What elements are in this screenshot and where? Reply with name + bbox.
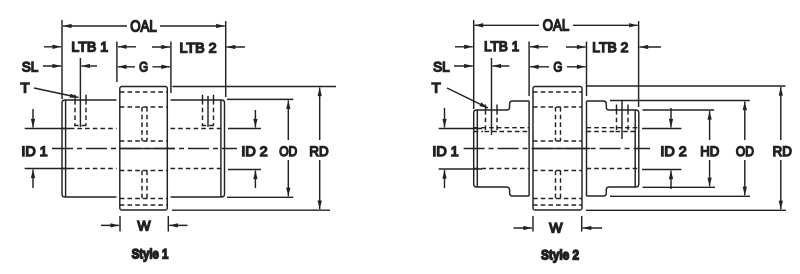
LTB 2 extension line left (style 2): [586, 42, 588, 97]
hub 2 setscrew centerline (style 2): [621, 101, 623, 140]
hub 1 setscrew ticks above OD: [74, 95, 76, 100]
RD extension lines: [172, 86, 336, 88]
RD extension lines (style 2): [586, 85, 786, 87]
svg-text:ID 2: ID 2: [660, 143, 687, 159]
flange jaw stems lower: [141, 171, 143, 199]
hub 1 left face chamfer line: [65, 100, 67, 197]
flange jaw hidden line upper top (style 2): [533, 106, 582, 108]
ID 2 extension lines: [228, 128, 261, 130]
svg-text:T: T: [21, 80, 30, 96]
flange jaw hidden line (lower slot top): [120, 170, 168, 172]
hub 2 collar left face: [586, 101, 588, 196]
svg-text:RD: RD: [773, 143, 792, 159]
OAL dimension line with arrows: [63, 25, 127, 27]
LTB 2 outside arrows (style 2): [566, 46, 586, 48]
hub 2 setscrew ticks above OD: [202, 95, 204, 100]
hub 1 setscrew hole hidden lines (style 2): [485, 110, 487, 132]
coupling axis centerline: [52, 148, 237, 150]
flange jaw hidden line lower top (style 2): [533, 170, 582, 172]
SL dimension arrows (style 2): [454, 65, 473, 67]
ID 1 arrows (style 2): [444, 108, 446, 127]
OAL extension line right: [225, 21, 227, 97]
svg-text:HD: HD: [700, 143, 719, 159]
hub 1 bore hidden lines: [62, 128, 117, 130]
svg-text:SL: SL: [433, 59, 450, 75]
svg-text:W: W: [549, 219, 563, 235]
RD arrows (style 2): [780, 87, 782, 140]
hub 1 outline (barrel and flange collar): [474, 101, 529, 196]
HD extension lines (style 2): [643, 109, 715, 111]
hub 1 setscrew centerline (style 2): [491, 58, 493, 135]
W arrows: [101, 224, 119, 226]
svg-text:OD: OD: [279, 143, 297, 159]
svg-text:ID 1: ID 1: [432, 143, 459, 159]
svg-text:RD: RD: [309, 143, 328, 159]
flange inner recess hidden line bottom: [120, 204, 168, 206]
T leader line (style 2): [447, 88, 488, 108]
hub 1 keyway hidden line (style 2): [474, 131, 483, 133]
flange seam line: [120, 148, 175, 150]
RD arrows: [319, 88, 321, 140]
hub 1 setscrew hole bottom (style 2): [485, 131, 499, 133]
SL dimension arrows: [43, 65, 61, 67]
svg-text:LTB 2: LTB 2: [180, 39, 217, 55]
hub 1 setscrew ticks (style 2): [485, 105, 487, 111]
coupling axis centerline (style 2): [464, 148, 650, 150]
hub 1 setscrew centerline: [79, 58, 81, 127]
hub 2 bore hidden lines: [171, 128, 225, 130]
OD extension lines: [227, 98, 293, 100]
svg-text:Style 1: Style 1: [132, 247, 169, 262]
hub 2 setscrew hole bottom: [202, 125, 215, 127]
W extension ticks (style 2): [532, 216, 534, 232]
flange jaw stems upper (style 2): [555, 107, 557, 141]
flange jaw hidden line (upper slot top): [120, 106, 168, 108]
flange jaw hidden line (lower slot bottom): [120, 198, 168, 200]
svg-text:G: G: [553, 59, 562, 75]
LTB 1 extension line right (style 2): [528, 42, 530, 97]
OD extension lines (style 2): [610, 100, 750, 102]
ID 1 extension lines: [25, 128, 70, 130]
G dimension arrows (style 2): [530, 66, 549, 68]
OAL extension line left (style 2): [473, 20, 475, 109]
flange jaw hidden line upper bottom (style 2): [533, 140, 582, 142]
svg-text:W: W: [137, 218, 151, 234]
OAL extension line right (style 2): [638, 21, 640, 107]
hub 2 setscrew hole bottom (style 2): [616, 131, 630, 133]
svg-text:OAL: OAL: [130, 18, 157, 35]
LTB 2 outside arrows: [152, 46, 170, 48]
hub 2 setscrew hole hidden lines (style 2): [616, 110, 618, 132]
svg-text:LTB 1: LTB 1: [484, 38, 520, 54]
flange jaw hidden line (upper slot bottom): [120, 140, 168, 142]
hub 1 setscrew hole hidden lines: [74, 100, 76, 126]
LTB 1 extension line right: [116, 42, 118, 83]
hub 2 setscrew centerline: [207, 96, 209, 127]
flange jaw hidden line lower bottom (style 2): [533, 198, 582, 200]
OD arrows: [287, 101, 289, 141]
OAL extension line left: [61, 20, 63, 99]
svg-text:OD: OD: [736, 143, 754, 159]
center flange outline (style 2): [533, 87, 582, 211]
LTB 1 outside arrows: [44, 46, 61, 48]
svg-text:ID 1: ID 1: [21, 143, 48, 159]
T leader line: [34, 88, 79, 98]
hub 2 right face chamfer line: [220, 100, 222, 197]
svg-text:Style 2: Style 2: [541, 248, 579, 263]
flange inner recess hidden line bottom (style 2): [533, 204, 582, 206]
svg-text:T: T: [432, 80, 441, 96]
hub 2 chamfer line: [634, 110, 636, 187]
flange jaw stems upper: [141, 107, 143, 141]
hub 2 setscrew ticks (style 2): [616, 105, 618, 111]
svg-text:LTB 2: LTB 2: [592, 39, 628, 55]
center flange outline: [120, 87, 168, 211]
svg-text:G: G: [139, 59, 148, 75]
ID 2 arrows (style 2): [670, 108, 672, 127]
hub 1 bore hidden lines (style 2): [474, 127, 529, 129]
LTB 1 outside arrows (style 2): [455, 46, 473, 48]
LTB 2 extension line left: [170, 42, 172, 94]
OD arrows (style 2): [744, 102, 746, 140]
flange jaw stems lower (style 2): [555, 171, 557, 199]
hub 1 chamfer line: [476, 110, 478, 187]
ID 2 extension lines (style 2): [642, 128, 681, 130]
hub 2 outline (collar and barrel): [587, 101, 639, 196]
hub 2 outline: [171, 100, 225, 197]
G dimension arrows: [118, 66, 135, 68]
hub 1 setscrew hole bottom: [74, 125, 87, 127]
hub 1 outline: [62, 100, 117, 197]
ID 2 arrows: [254, 110, 256, 127]
flange inner recess hidden line top (style 2): [533, 91, 582, 93]
svg-text:LTB 1: LTB 1: [71, 39, 108, 55]
svg-text:SL: SL: [22, 59, 39, 75]
svg-text:ID 2: ID 2: [241, 143, 268, 159]
hub 2 keyway hidden line (style 2): [587, 131, 615, 133]
ID 1 arrows: [32, 109, 34, 127]
svg-text:OAL: OAL: [543, 18, 570, 35]
W arrows (style 2): [514, 227, 532, 229]
flange inner recess hidden line top: [120, 91, 168, 93]
hub 2 setscrew hole hidden lines: [202, 100, 204, 126]
flange seam line (style 2): [533, 148, 590, 150]
HD arrows (style 2): [709, 111, 711, 140]
ID 1 extension lines (style 2): [439, 128, 482, 130]
hub 1 collar right face: [528, 101, 530, 196]
W extension ticks: [119, 216, 121, 232]
OAL dimension line with arrows (style 2): [475, 24, 539, 26]
hub 2 bore hidden lines (style 2): [587, 127, 639, 129]
